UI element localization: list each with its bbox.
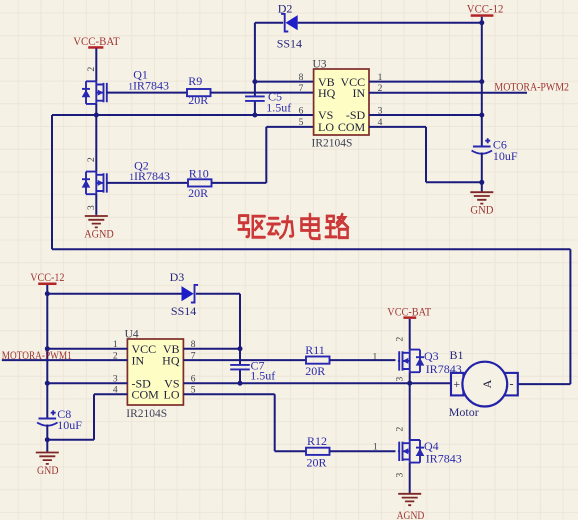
svg-text:R12: R12 — [307, 434, 327, 448]
junction pin1 at VCC-12 — [479, 79, 484, 84]
wire U3 pin1 to VCC-12 — [369, 81, 482, 83]
svg-text:Q3: Q3 — [424, 349, 439, 363]
svg-text:10uF: 10uF — [493, 149, 518, 163]
svg-text:HQ: HQ — [162, 353, 180, 367]
svg-text:20R: 20R — [188, 186, 208, 200]
svg-text:IR2104S: IR2104S — [312, 138, 353, 150]
op-amp U4 IR2104S — [125, 328, 184, 420]
svg-text:1IR7843: 1IR7843 — [129, 169, 170, 183]
wire U4 pin5 to R12 — [183, 394, 306, 451]
svg-text:2: 2 — [395, 337, 405, 342]
svg-text:GND: GND — [37, 465, 59, 477]
wire U3 pin4 to GND node — [369, 127, 482, 182]
svg-text:VCC-12: VCC-12 — [30, 272, 65, 284]
wire Q1 source to Q2 drain — [95, 104, 97, 172]
svg-text:SS14: SS14 — [277, 37, 302, 51]
junction VB row (bottom) — [238, 346, 243, 351]
svg-text:MOTORA-PWM2: MOTORA-PWM2 — [494, 81, 569, 93]
capacitor C6 — [472, 137, 518, 162]
svg-text:IN: IN — [132, 353, 145, 367]
svg-text:20R: 20R — [307, 455, 327, 469]
transistor Q3 — [395, 337, 461, 382]
transistor Q1 — [82, 67, 169, 104]
svg-text:5: 5 — [299, 118, 304, 128]
wire U4 pin3 to VCC-12 — [47, 382, 127, 384]
junction pin3 at VCC-12 (bottom) — [45, 381, 50, 386]
ground GND (bottom section) — [36, 451, 59, 477]
wire right vertical to motor — [569, 249, 571, 384]
wire C6 to GND — [481, 153, 483, 192]
motor B1 — [449, 348, 518, 419]
resistor R10 — [188, 166, 212, 200]
wire U3 pin3 to VCC-12 — [369, 114, 482, 116]
diode D2 SS14 — [277, 1, 302, 50]
svg-text:IN: IN — [353, 86, 366, 100]
ground GND (top section) — [470, 191, 493, 217]
power VCC-BAT (bottom) — [387, 306, 431, 319]
junction pin3 at VCC-12 — [479, 113, 484, 118]
capacitor C5 — [245, 82, 291, 115]
wire Q3 source to Q4 drain — [409, 372, 411, 440]
wire U4 pin6 VS row to motor — [183, 382, 451, 384]
junction pin4 at GND (bottom) — [45, 437, 50, 442]
wire D2 cathode to VB node — [255, 22, 283, 24]
power VCC-BAT (top) — [73, 36, 120, 49]
power VCC-12 (top right) — [467, 4, 504, 17]
svg-text:1.5uf: 1.5uf — [266, 101, 291, 115]
svg-text:R11: R11 — [305, 343, 325, 357]
svg-text:MOTORA-PWM1: MOTORA-PWM1 — [2, 350, 72, 362]
svg-text:COM: COM — [132, 388, 160, 402]
wire VCC-12 vertical — [481, 17, 483, 147]
resistor R9 — [187, 74, 211, 107]
wire long bottom rail — [52, 248, 570, 250]
wire R10 to U3 pin5 — [212, 127, 314, 183]
text title 驱动电路 — [239, 214, 348, 239]
wire U3 pin2 net MOTORA-PWM2 — [369, 81, 569, 93]
wire VCC-12 vertical (bottom) — [46, 285, 48, 418]
junction C7 at VS row (bottom) — [238, 381, 243, 386]
svg-text:U3: U3 — [313, 58, 327, 70]
svg-text:Motor: Motor — [449, 405, 479, 419]
svg-text:3: 3 — [395, 473, 405, 478]
svg-text:2: 2 — [395, 427, 405, 432]
ground AGND (Q4) — [397, 493, 425, 520]
wire U4 pin7 to R11 — [183, 359, 306, 361]
svg-text:+: + — [453, 377, 460, 391]
svg-text:20R: 20R — [188, 93, 208, 107]
svg-text:20R: 20R — [305, 364, 325, 378]
wire R9 to U3 pin7 — [211, 92, 314, 94]
op-amp U3 IR2104S — [312, 58, 370, 149]
wire left vertical of bridge node — [51, 115, 53, 249]
wire VB row to U3 pin8 — [255, 81, 314, 83]
wire Q4 source to AGND — [409, 463, 411, 494]
svg-text:R10: R10 — [189, 166, 209, 180]
resistor R11 — [305, 343, 329, 378]
svg-text:B1: B1 — [450, 348, 464, 362]
svg-text:D3: D3 — [170, 270, 185, 284]
junction D2 at VCC-12 — [479, 20, 484, 25]
wire Q2 source to AGND — [95, 194, 97, 215]
wire U4 pin8 to VB node — [183, 348, 240, 350]
capacitor C7 — [230, 349, 275, 384]
diode D3 SS14 — [170, 270, 199, 318]
junction pin4 at GND node — [479, 180, 484, 185]
svg-text:U4: U4 — [125, 328, 139, 340]
svg-text:3: 3 — [395, 377, 405, 382]
svg-text:HQ: HQ — [318, 86, 336, 100]
svg-text:2: 2 — [87, 67, 97, 72]
wire to D3 anode — [47, 293, 181, 295]
wire U4 pin2 net MOTORA-PWM1 — [2, 350, 128, 362]
svg-text:-: - — [510, 377, 514, 391]
junction pin1 at VCC-12 (bottom) — [45, 346, 50, 351]
svg-text:VCC-12: VCC-12 — [467, 4, 504, 16]
svg-text:8: 8 — [299, 73, 304, 83]
svg-text:SS14: SS14 — [171, 304, 196, 318]
wire R11 to Q3 gate — [330, 359, 396, 361]
wire VB node vertical — [254, 23, 256, 82]
ground AGND (Q2) — [84, 215, 114, 241]
wire D3 cathode to VB node — [196, 294, 240, 349]
junction D3 branch — [45, 291, 50, 296]
wire motor right terminal — [518, 383, 571, 385]
wire C8 to GND — [46, 425, 48, 453]
wire U4 pin1 to VCC-12 — [47, 348, 127, 350]
wire Q1 gate to R9 — [107, 92, 187, 94]
wire VCC-BAT to Q1 drain — [95, 48, 97, 81]
wire D2 anode to VCC-12 — [298, 22, 482, 24]
svg-text:LO: LO — [164, 388, 180, 402]
svg-text:A: A — [480, 379, 494, 388]
svg-text:IR7843: IR7843 — [426, 451, 462, 465]
junction VB row — [252, 79, 257, 84]
svg-text:1.5uf: 1.5uf — [250, 369, 275, 383]
svg-text:D2: D2 — [278, 1, 293, 15]
junction C5 at VS row — [252, 113, 257, 118]
power VCC-12 (bottom left) — [30, 272, 65, 285]
junction at Q1 source / VS row — [94, 113, 99, 118]
resistor R12 — [306, 434, 330, 470]
svg-text:1: 1 — [373, 443, 378, 453]
svg-text:1IR7843: 1IR7843 — [128, 78, 169, 92]
wire VS row (node to U3 pin6) — [52, 114, 314, 116]
svg-text:10uF: 10uF — [57, 418, 82, 432]
svg-text:R9: R9 — [188, 74, 202, 88]
svg-text:1: 1 — [373, 352, 378, 362]
junction switch node — [407, 381, 412, 386]
svg-text:AGND: AGND — [397, 510, 425, 520]
wire VCC-BAT to Q3 drain — [409, 319, 411, 350]
svg-text:GND: GND — [470, 205, 493, 217]
wire R12 to Q4 gate — [330, 450, 396, 452]
svg-text:LO: LO — [318, 120, 334, 134]
svg-text:COM: COM — [338, 120, 366, 134]
wire U4 pin4 to GND node — [47, 394, 127, 439]
svg-text:AGND: AGND — [84, 228, 114, 240]
transistor Q2 — [82, 157, 170, 210]
transistor Q4 — [395, 427, 461, 478]
svg-text:7: 7 — [299, 84, 304, 94]
wire Q2 gate to R10 — [107, 182, 188, 184]
svg-text:6: 6 — [299, 106, 304, 116]
capacitor C8 — [37, 407, 82, 432]
svg-text:2: 2 — [87, 157, 97, 162]
svg-text:IR2104S: IR2104S — [126, 408, 167, 420]
